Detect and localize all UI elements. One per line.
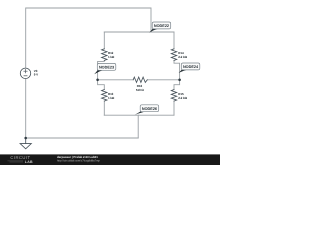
- voltage source V3 circle: [20, 68, 30, 78]
- svg-text:derpasaur | Prelab 2.63 Lab01: derpasaur | Prelab 2.63 Lab01: [57, 155, 98, 159]
- svg-text:9 V: 9 V: [34, 72, 38, 76]
- wire: mid rail left lead: [98, 79, 134, 81]
- junction dot left mid: [96, 79, 99, 82]
- wire: left branch top lead: [103, 32, 105, 49]
- wire: V+ up, top rail, down to NODE22 stem: [26, 8, 151, 68]
- node flag NODE22: [149, 22, 170, 33]
- wire: right junction down jog to R15: [174, 80, 180, 90]
- wire: bottom ground rail: [26, 137, 139, 139]
- svg-text:2.2 kΩ: 2.2 kΩ: [178, 55, 187, 59]
- junction dot bottom left: [24, 137, 27, 140]
- svg-text:NODE24: NODE24: [183, 65, 199, 69]
- wire: left branch bottom lead: [103, 101, 105, 115]
- resistor R13 zigzag: [102, 90, 107, 102]
- watermark bar: [0, 154, 220, 165]
- label R16 value: [136, 84, 145, 92]
- wire: V- down to ground rail: [25, 79, 27, 138]
- wire: right branch jog to NODE24 junction: [174, 60, 180, 79]
- svg-text:NODE26: NODE26: [142, 107, 157, 111]
- wire: left branch jog to NODE23 junction: [98, 60, 105, 79]
- wire: bridge top rail: [104, 31, 174, 33]
- label R13 value: [108, 92, 115, 100]
- V3 plus sign: [24, 70, 27, 73]
- V3 minus sign: [24, 75, 27, 77]
- label V3 value: [34, 69, 38, 77]
- node flag NODE24: [179, 63, 200, 73]
- node flag NODE23: [94, 63, 116, 74]
- svg-text:1 kΩ: 1 kΩ: [108, 96, 115, 100]
- label R15 value: [178, 92, 187, 100]
- node flag NODE26: [135, 105, 159, 115]
- junction dot right mid: [178, 79, 181, 82]
- svg-text:LAB: LAB: [25, 160, 33, 164]
- wire: bridge bottom rail: [104, 114, 174, 116]
- label R14 value: [178, 51, 187, 59]
- svg-text:510 Ω: 510 Ω: [136, 88, 145, 92]
- wire: left junction down jog to R13: [98, 80, 105, 90]
- resistor R14 zigzag: [171, 49, 176, 61]
- resistor R16 zigzag: [133, 77, 147, 82]
- svg-text:2.2 kΩ: 2.2 kΩ: [178, 96, 187, 100]
- svg-text:NODE23: NODE23: [99, 66, 114, 70]
- wire: right branch bottom lead: [173, 101, 175, 115]
- resistor R15 zigzag: [171, 90, 176, 102]
- label R12 value: [108, 51, 115, 59]
- resistor R12 zigzag: [102, 49, 107, 61]
- svg-text:1 kΩ: 1 kΩ: [108, 55, 115, 59]
- wire: drop from bridge bottom to ground rail: [137, 115, 139, 138]
- wire: right branch top lead: [173, 32, 175, 49]
- svg-text:http://circuitlab.com/c7luvg9d: http://circuitlab.com/c7luvg9d8a7mp: [57, 160, 100, 163]
- svg-text:NODE22: NODE22: [154, 24, 169, 28]
- ground symbol: [20, 138, 31, 149]
- wire: mid rail right lead: [147, 79, 179, 81]
